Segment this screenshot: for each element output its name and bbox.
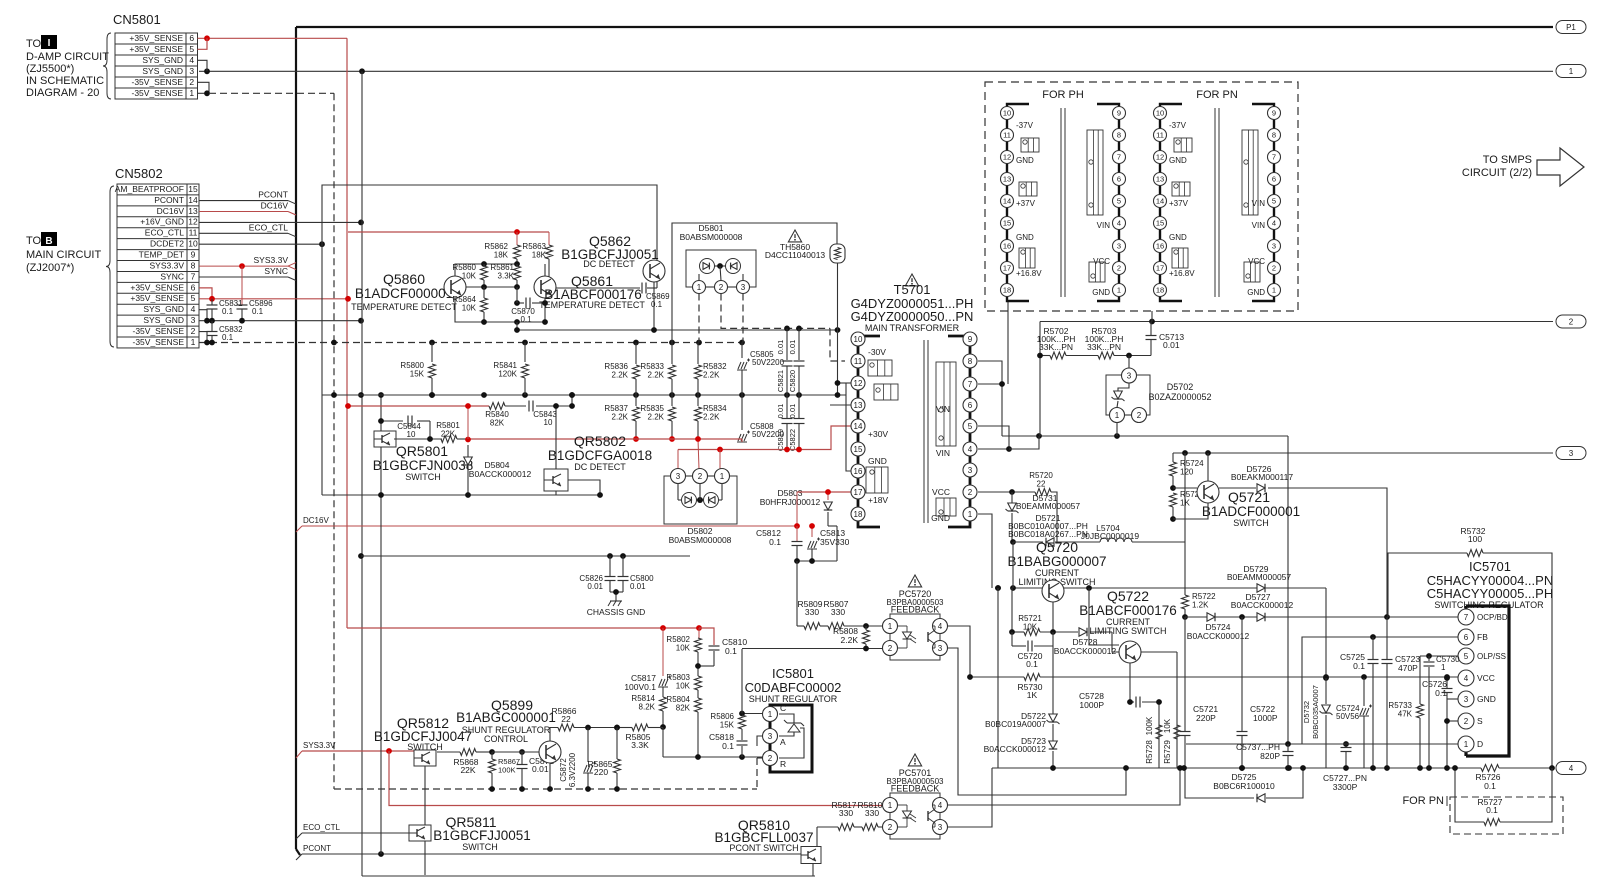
- resistor R5863: [546, 245, 553, 259]
- svg-text:22: 22: [561, 714, 571, 724]
- wire: [568, 480, 600, 495]
- svg-text:2.2K: 2.2K: [648, 413, 665, 422]
- svg-text:82K: 82K: [490, 419, 505, 428]
- svg-text:22: 22: [1037, 480, 1046, 489]
- svg-text:0.1: 0.1: [1435, 688, 1447, 698]
- wire dashed -35V_SENSE: [209, 92, 334, 94]
- winding: [1174, 138, 1192, 152]
- node 3: [1556, 447, 1586, 460]
- svg-text:11: 11: [1003, 131, 1011, 140]
- svg-text:R: R: [780, 759, 786, 769]
- wire SYNC: [199, 276, 288, 278]
- wire dashed bottom: [334, 788, 757, 790]
- svg-text:3: 3: [1569, 449, 1574, 458]
- svg-text:50V2200: 50V2200: [752, 358, 785, 367]
- svg-text:4: 4: [1464, 674, 1469, 683]
- wire +30V red: [678, 426, 851, 450]
- diode D5726: [1219, 487, 1256, 489]
- svg-text:CIRCUIT (2/2): CIRCUIT (2/2): [1462, 167, 1532, 179]
- wire +35V_SENSE pin5: [198, 38, 208, 49]
- pin 5: [1458, 648, 1474, 664]
- resistor R5806: [739, 715, 746, 729]
- svg-text:6: 6: [1272, 175, 1276, 184]
- svg-text:+35V_SENSE: +35V_SENSE: [130, 293, 184, 303]
- wire pin3: [757, 736, 763, 746]
- diode block D5702: [1128, 356, 1130, 369]
- wire: [1173, 503, 1208, 519]
- svg-text:1: 1: [720, 472, 725, 481]
- capacitor C5713: [1150, 322, 1152, 336]
- svg-text:12: 12: [1156, 153, 1164, 162]
- wire pin7: [978, 383, 1002, 385]
- net flag SYS3.3V: [288, 263, 296, 267]
- wire pin13 stub: [830, 404, 851, 406]
- svg-text:SYNC: SYNC: [264, 266, 288, 276]
- wire Q5860 box: [455, 264, 517, 276]
- svg-text:B1ABCF000176: B1ABCF000176: [1079, 603, 1177, 618]
- svg-text:18: 18: [1003, 286, 1011, 295]
- winding: [936, 498, 956, 516]
- svg-text:1000P: 1000P: [1079, 700, 1104, 710]
- wire +35V_SENSE pin6: [198, 37, 348, 39]
- svg-text:1: 1: [1115, 411, 1120, 420]
- winding: [936, 362, 956, 446]
- wire +35V red vertical: [346, 38, 348, 628]
- svg-text:+35V_SENSE: +35V_SENSE: [130, 282, 184, 292]
- svg-text:-30V: -30V: [868, 347, 886, 357]
- svg-text:10K: 10K: [676, 644, 691, 653]
- resistor R5724: [1172, 453, 1174, 462]
- svg-text:3: 3: [741, 283, 746, 292]
- svg-text:11: 11: [1156, 131, 1164, 140]
- transistor QR5801: [374, 431, 396, 447]
- svg-text:220: 220: [594, 767, 608, 777]
- pin 4: [1458, 670, 1474, 686]
- diode D5804: [467, 406, 469, 439]
- wire: [198, 60, 208, 71]
- svg-text:1: 1: [768, 710, 773, 719]
- svg-text:0.01: 0.01: [532, 764, 549, 774]
- svg-text:6: 6: [191, 282, 196, 292]
- pin 3: [1458, 691, 1474, 707]
- capacitor C5870: [517, 302, 524, 304]
- svg-text:CN5802: CN5802: [115, 166, 163, 181]
- svg-text:1K: 1K: [1180, 499, 1190, 508]
- resistor R5809: [804, 623, 820, 630]
- svg-text:1.2K: 1.2K: [1192, 601, 1209, 610]
- svg-text:50V56: 50V56: [1336, 712, 1360, 721]
- svg-text:B1ADCF000001: B1ADCF000001: [355, 286, 453, 301]
- svg-text:Q5720: Q5720: [1036, 539, 1078, 555]
- svg-text:SYS3.3V: SYS3.3V: [150, 260, 185, 270]
- resistor R5803: [695, 676, 702, 690]
- svg-text:2: 2: [888, 644, 893, 653]
- svg-text:+16.8V: +16.8V: [1016, 269, 1042, 278]
- svg-text:B0ACCK000012: B0ACCK000012: [1231, 600, 1294, 610]
- net label SYS3.3V: [296, 751, 302, 758]
- svg-text:7: 7: [1272, 153, 1276, 162]
- wire +35V pin5: [199, 298, 348, 300]
- svg-text:+16V_GND: +16V_GND: [140, 217, 184, 227]
- wire dashed: [756, 758, 758, 789]
- svg-text:IN SCHEMATIC: IN SCHEMATIC: [26, 75, 104, 87]
- svg-text:18K: 18K: [494, 251, 509, 260]
- svg-text:ECO_CTL: ECO_CTL: [145, 228, 184, 238]
- resistor R5729: [1174, 725, 1180, 739]
- pin 1: [1458, 736, 1474, 752]
- svg-text:S: S: [1477, 716, 1483, 726]
- svg-text:C5822: C5822: [788, 429, 797, 451]
- svg-text:0.1: 0.1: [769, 537, 781, 547]
- pin 2: [715, 281, 728, 294]
- transformer T5701: [905, 274, 918, 286]
- svg-text:3: 3: [938, 823, 943, 832]
- winding: [1089, 262, 1105, 282]
- wire: [1428, 656, 1430, 661]
- svg-text:R5728: R5728: [1145, 740, 1154, 764]
- net label DC16V: [296, 526, 302, 532]
- svg-text:GND: GND: [1169, 233, 1187, 242]
- wire PCONT: [199, 200, 288, 202]
- svg-text:J0JBC0000019: J0JBC0000019: [1081, 531, 1139, 541]
- svg-text:100V0.1: 100V0.1: [624, 682, 656, 692]
- svg-text:10: 10: [854, 335, 863, 344]
- svg-text:-37V: -37V: [1016, 121, 1034, 130]
- svg-text:11: 11: [854, 357, 863, 366]
- wire ECO_CTL: [199, 232, 288, 234]
- svg-text:B0ZAZ0000052: B0ZAZ0000052: [1148, 392, 1211, 402]
- svg-text:ECO_CTL: ECO_CTL: [249, 222, 288, 232]
- wire OLP: [1420, 655, 1458, 657]
- wire ECO_CTL: [302, 832, 411, 834]
- resistor R5817: [817, 826, 838, 828]
- svg-text:22K: 22K: [460, 765, 475, 775]
- resistor R5733b: [1417, 704, 1424, 718]
- resistor R5834: [697, 395, 699, 406]
- wire: [549, 763, 551, 789]
- capacitor C5813 electrolytic: [811, 526, 813, 537]
- wire PCONT: [302, 853, 801, 855]
- wire DCDET2: [199, 243, 322, 245]
- winding: [1244, 262, 1260, 282]
- capacitor C5818: [737, 740, 748, 742]
- svg-text:D5702: D5702: [1167, 382, 1194, 392]
- svg-text:14: 14: [1156, 197, 1164, 206]
- wire red: [698, 439, 699, 469]
- svg-text:14: 14: [854, 422, 863, 431]
- svg-text:2: 2: [189, 77, 194, 87]
- zener: [1118, 383, 1129, 391]
- svg-text:1: 1: [1569, 67, 1574, 76]
- pin 2: [763, 751, 778, 766]
- wire: [555, 491, 557, 495]
- svg-text:B1GBCFJJ0051: B1GBCFJJ0051: [433, 828, 531, 843]
- wire: [1011, 588, 1013, 632]
- svg-text:4: 4: [938, 801, 943, 810]
- wire: [424, 766, 426, 875]
- wire: [1184, 542, 1186, 595]
- svg-text:PCONT: PCONT: [258, 190, 288, 200]
- capacitor C5820: [798, 328, 800, 360]
- svg-text:B0BC6R100010: B0BC6R100010: [1213, 781, 1275, 791]
- svg-text:17: 17: [1156, 264, 1164, 273]
- svg-text:SYS3.3V: SYS3.3V: [303, 741, 336, 750]
- svg-text:+35V_SENSE: +35V_SENSE: [129, 44, 183, 54]
- svg-text:7: 7: [968, 380, 973, 389]
- svg-text:DC DETECT: DC DETECT: [583, 259, 635, 269]
- wire: [662, 728, 664, 758]
- resistor R5867: [491, 752, 493, 759]
- svg-text:2.2K: 2.2K: [703, 371, 720, 380]
- capacitor C5725: [1372, 637, 1374, 659]
- resistor R5840: [489, 403, 505, 410]
- shunt regulator IC5801: [770, 705, 812, 772]
- svg-text:1: 1: [1272, 286, 1276, 295]
- svg-text:B0ABSM000008: B0ABSM000008: [669, 535, 732, 545]
- svg-text:B0ACCK000012: B0ACCK000012: [984, 744, 1047, 754]
- resistor R5868: [460, 749, 476, 756]
- resistor R5804: [695, 698, 702, 712]
- svg-text:B0BC018A0267...PN: B0BC018A0267...PN: [1008, 529, 1088, 539]
- brace: [106, 186, 114, 347]
- svg-text:0.1: 0.1: [1484, 781, 1496, 791]
- svg-text:CN5801: CN5801: [113, 12, 161, 27]
- thermistor TH5860: [830, 244, 845, 263]
- pin 3: [671, 469, 686, 484]
- svg-text:3: 3: [189, 66, 194, 76]
- diode D5725 loop: [1185, 768, 1254, 798]
- resistor R5732 loop: [1388, 553, 1467, 617]
- svg-text:3: 3: [1464, 695, 1469, 704]
- svg-text:0.1: 0.1: [520, 315, 532, 324]
- svg-text:22K: 22K: [441, 430, 456, 439]
- svg-text:0.1: 0.1: [1026, 659, 1038, 669]
- resistor R5841: [524, 343, 526, 363]
- svg-text:D: D: [1477, 739, 1483, 749]
- pin 1: [763, 707, 778, 722]
- wire: [1141, 651, 1177, 653]
- node P1: [1556, 21, 1586, 34]
- capacitor C5869: [641, 283, 643, 294]
- diode block D5801: [686, 250, 756, 287]
- pin 2: [693, 469, 708, 484]
- svg-text:100K: 100K: [1145, 716, 1154, 735]
- svg-text:C5821: C5821: [776, 370, 785, 392]
- wire: [828, 525, 837, 527]
- wire +16V_GND: [199, 221, 362, 223]
- svg-text:B0ABSM000008: B0ABSM000008: [680, 232, 743, 242]
- optocoupler PC5701: [890, 793, 940, 839]
- resistor R5861: [514, 266, 521, 280]
- svg-text:SYNC: SYNC: [160, 271, 184, 281]
- svg-text:7: 7: [1117, 153, 1121, 162]
- capacitor C5821: [786, 328, 788, 360]
- wire: [199, 70, 1553, 72]
- wire: [797, 560, 837, 562]
- resistor R5720: [1035, 489, 1051, 496]
- wire: [1447, 699, 1458, 768]
- TL431 symbol: [779, 714, 794, 723]
- svg-text:10K: 10K: [462, 304, 477, 313]
- svg-text:C: C: [780, 703, 786, 713]
- svg-text:10K: 10K: [1163, 718, 1172, 733]
- svg-text:SWITCH: SWITCH: [407, 742, 443, 752]
- capacitor C5872 electrolytic: [587, 728, 589, 763]
- svg-text:15: 15: [188, 184, 198, 194]
- svg-text:2.2K: 2.2K: [648, 371, 665, 380]
- resistor R5807: [820, 625, 828, 627]
- svg-text:2: 2: [1464, 717, 1469, 726]
- chassis ground: [610, 600, 622, 602]
- resistor R5727: [1455, 768, 1484, 822]
- wire DCDET2 up-over: [322, 185, 657, 495]
- capacitor C5737: [1287, 744, 1289, 752]
- wire pin4: [948, 626, 971, 677]
- svg-text:10K: 10K: [462, 272, 477, 281]
- resistor R5832: [697, 343, 699, 365]
- svg-text:ECO_CTL: ECO_CTL: [303, 823, 340, 832]
- svg-text:7: 7: [1464, 613, 1469, 622]
- svg-text:4: 4: [191, 304, 196, 314]
- wire dashed: [333, 93, 335, 789]
- svg-text:R5729: R5729: [1163, 740, 1172, 764]
- svg-text:GND: GND: [1092, 288, 1110, 297]
- capacitor C5822: [798, 395, 800, 418]
- svg-text:330: 330: [805, 607, 819, 617]
- diode: [704, 493, 719, 508]
- transistor Q5722: [1119, 641, 1141, 663]
- svg-text:0.1: 0.1: [1353, 661, 1365, 671]
- wire: [742, 713, 763, 715]
- svg-text:1: 1: [1464, 740, 1469, 749]
- wire dashed: [830, 328, 845, 361]
- svg-text:B: B: [45, 236, 52, 247]
- svg-text:FOR PN: FOR PN: [1196, 89, 1238, 101]
- svg-text:10: 10: [407, 430, 416, 439]
- wire: [544, 264, 546, 276]
- svg-text:1: 1: [697, 283, 702, 292]
- svg-text:3: 3: [938, 644, 943, 653]
- svg-text:2: 2: [888, 823, 893, 832]
- winding: [874, 384, 898, 400]
- wire FB: [1302, 637, 1458, 744]
- svg-text:33K...PN: 33K...PN: [1039, 342, 1073, 352]
- svg-text:IC5701: IC5701: [1469, 559, 1511, 574]
- svg-text:4: 4: [1569, 764, 1574, 773]
- wire: [1151, 311, 1153, 322]
- svg-text:OCP/BD: OCP/BD: [1477, 613, 1508, 622]
- svg-text:220P: 220P: [1196, 713, 1216, 723]
- inductor L5704: [1100, 538, 1132, 542]
- wire: [437, 751, 460, 753]
- capacitor C5810: [709, 645, 720, 647]
- svg-text:C5730: C5730: [1436, 655, 1460, 664]
- wire: [555, 406, 557, 469]
- svg-text:12: 12: [854, 379, 863, 388]
- svg-text:DCDET2: DCDET2: [150, 239, 184, 249]
- svg-text:1: 1: [191, 337, 196, 347]
- svg-text:D5732: D5732: [1302, 701, 1311, 723]
- diode D5727: [1257, 613, 1265, 622]
- wire pin1: [978, 514, 992, 588]
- svg-text:47K: 47K: [1398, 710, 1413, 719]
- svg-text:3: 3: [1272, 242, 1276, 251]
- resistor R5833: [671, 343, 673, 365]
- pin 1: [1110, 408, 1125, 423]
- svg-text:5: 5: [1272, 197, 1276, 206]
- wire emitter rail: [1013, 587, 1326, 589]
- capacitor C5800: [622, 556, 624, 576]
- svg-text:P1: P1: [1566, 23, 1576, 32]
- wire: [361, 555, 690, 557]
- winding: [1242, 130, 1258, 215]
- svg-text:3: 3: [191, 315, 196, 325]
- svg-text:B0HFRJ000012: B0HFRJ000012: [760, 497, 821, 507]
- wire SYS_GND: [199, 320, 362, 322]
- transistor Q5720: [1042, 580, 1064, 602]
- svg-text:SYS_GND: SYS_GND: [143, 304, 184, 314]
- wire red rail: [469, 438, 742, 440]
- optocoupler PC5720: [890, 614, 940, 660]
- svg-text:0.01: 0.01: [788, 340, 797, 355]
- wire -35V_SENSE: [198, 92, 210, 94]
- svg-text:17: 17: [854, 488, 863, 497]
- wire red: [347, 627, 700, 629]
- label TH5860: [788, 230, 801, 242]
- svg-text:(ZJ2007*): (ZJ2007*): [26, 262, 74, 274]
- svg-text:3.3K: 3.3K: [498, 272, 515, 281]
- wire S pin2: [1447, 720, 1458, 722]
- svg-text:QR5801: QR5801: [396, 443, 448, 459]
- diode D5723: [1049, 741, 1058, 749]
- capacitor C5819: [786, 395, 788, 418]
- svg-text:2: 2: [1272, 264, 1276, 273]
- svg-text:82K: 82K: [676, 704, 691, 713]
- wire: [394, 438, 442, 440]
- svg-text:12: 12: [188, 217, 198, 227]
- svg-text:4: 4: [938, 622, 943, 631]
- svg-text:VIN: VIN: [1097, 221, 1111, 230]
- resistor R5728: [1156, 725, 1162, 739]
- wire base: [466, 286, 517, 288]
- svg-text:2.2K: 2.2K: [612, 413, 629, 422]
- svg-text:13: 13: [188, 206, 198, 216]
- wire dashed pin3: [742, 294, 744, 343]
- wire VIN rail: [1002, 435, 1288, 437]
- capacitor C5843: [528, 401, 530, 412]
- svg-text:0.01: 0.01: [1163, 340, 1180, 350]
- pin 3: [1122, 368, 1137, 383]
- svg-text:3.3K: 3.3K: [631, 740, 649, 750]
- wire pin3: [948, 648, 1127, 795]
- svg-text:16: 16: [1156, 242, 1164, 251]
- svg-text:C5872: C5872: [559, 758, 568, 782]
- wire: [796, 561, 798, 626]
- capacitor C5808 electrolytic: [741, 395, 743, 430]
- wire SYS3.3V red down: [389, 751, 882, 806]
- svg-text:MAIN CIRCUIT: MAIN CIRCUIT: [26, 249, 101, 261]
- wire: [699, 628, 714, 645]
- svg-text:SYS_GND: SYS_GND: [142, 66, 183, 76]
- diode D5721: [1046, 538, 1054, 547]
- capacitor C5721: [1184, 617, 1186, 731]
- wire pin2 VCC: [978, 491, 1035, 493]
- svg-text:5: 5: [189, 44, 194, 54]
- svg-text:8: 8: [191, 260, 196, 270]
- svg-text:FOR PN: FOR PN: [1402, 795, 1444, 807]
- winding: [1172, 248, 1188, 268]
- svg-text:C5HACYY00005...PH: C5HACYY00005...PH: [1427, 586, 1553, 601]
